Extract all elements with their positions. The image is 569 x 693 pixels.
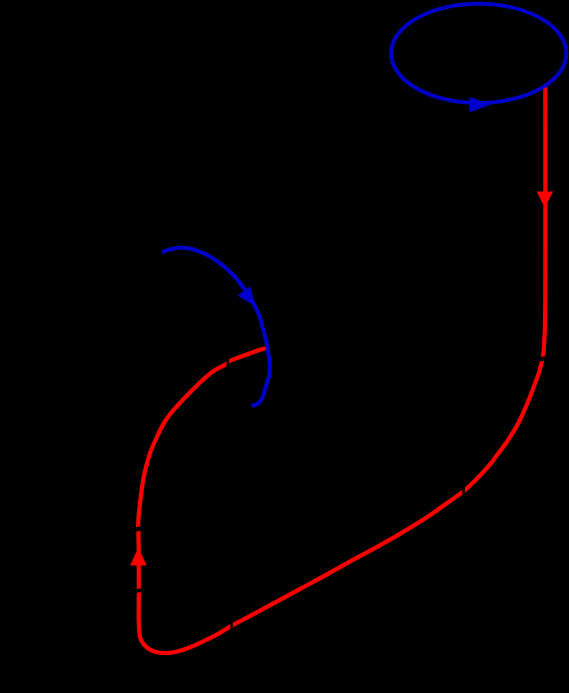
blue ellipse arrow bbox=[470, 97, 491, 113]
gap crossing 2 bbox=[462, 486, 465, 498]
gap crossing 5 bbox=[132, 589, 146, 592]
blue arc arrow bbox=[238, 286, 256, 306]
blue ellipse bbox=[391, 4, 566, 103]
gap crossing 4 bbox=[132, 527, 146, 530]
gap crossing 6 bbox=[227, 358, 230, 369]
gap crossing 3 bbox=[230, 622, 233, 634]
gap crossing 1 bbox=[536, 358, 550, 361]
red arrow down bbox=[537, 192, 554, 208]
red arrow up bbox=[130, 547, 147, 565]
blue arc bbox=[162, 248, 270, 406]
red trajectory bbox=[138, 86, 545, 653]
